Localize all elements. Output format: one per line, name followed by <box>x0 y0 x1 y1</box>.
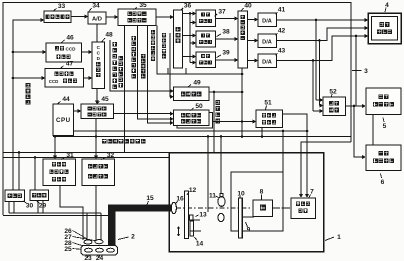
svg-text:32: 32 <box>107 152 115 159</box>
wire to relay 29 <box>34 156 37 159</box>
box 41: D/A converter <box>258 13 277 27</box>
wire 50 output to 51 <box>213 121 253 123</box>
bracket 9 <box>242 216 254 218</box>
svg-text:6: 6 <box>381 179 385 186</box>
svg-text:33: 33 <box>58 3 66 10</box>
wires 36 outputs to sync memories 37/38/39 <box>183 13 194 15</box>
box 39: sync memory B <box>196 52 216 68</box>
wire A/D down to CCD selector 48 <box>96 24 98 42</box>
svg-text:51: 51 <box>264 100 272 107</box>
wire 52 to digital editor 5 <box>346 105 363 107</box>
bus label text <box>102 139 107 144</box>
box 36: multiplexer (vertical) <box>174 10 183 68</box>
wire lamp supply <box>220 135 223 138</box>
wire 40 bottom down to light source control 51 <box>241 68 243 137</box>
taps from video lines down to encoder 52 <box>315 19 318 22</box>
wire box5 to box6 <box>372 115 374 146</box>
box 32: observation mode changeover switch <box>82 159 115 186</box>
svg-text:7: 7 <box>310 188 314 195</box>
svg-text:40: 40 <box>244 2 252 9</box>
wire: branch to ordinary CCD driver 46 <box>12 51 15 54</box>
CCD plate 10 <box>239 198 243 238</box>
vertical signal label: balance detect signal <box>151 30 155 34</box>
box 50: electronic shutter control circuit (double border) <box>177 113 213 129</box>
wire into dimmer 49 <box>170 33 171 97</box>
svg-text:37: 37 <box>218 8 226 15</box>
box 42: D/A converter <box>258 34 277 48</box>
lamp lower <box>218 213 224 221</box>
svg-text:34: 34 <box>92 3 100 10</box>
wire for shutter signal <box>110 40 170 91</box>
inner optical unit enclosure <box>231 172 283 231</box>
tap from monitor line down to editor feed <box>355 35 358 38</box>
vertical signal label: electronic shutter control signal <box>112 42 117 47</box>
box 35: color balance correction circuit <box>118 9 156 26</box>
wire dimming signal down into camera <box>213 91 216 94</box>
svg-text:16: 16 <box>176 196 184 203</box>
wires 37/38/39 to 40 <box>216 18 236 20</box>
wire 34 to 35 <box>106 16 115 18</box>
lens 16 <box>171 202 176 213</box>
box 5: digital editing device <box>366 88 401 115</box>
svg-text:15: 15 <box>146 195 154 202</box>
light guide tube vertical to connector <box>108 205 116 247</box>
lamp 11 <box>220 194 223 198</box>
svg-text:CCD: CCD <box>66 46 77 51</box>
wire D/A41 to monitor <box>277 19 366 21</box>
wire second mode signal <box>148 26 171 123</box>
axis dash between 8 and 7 <box>273 207 292 209</box>
wire feed from memories/multiplexer bottoms <box>157 26 242 75</box>
svg-text:3: 3 <box>364 68 368 75</box>
svg-text:31: 31 <box>66 152 74 159</box>
wire CPU to 45 <box>74 110 79 112</box>
svg-text:D/A: D/A <box>262 59 272 65</box>
svg-text:D/A: D/A <box>262 18 272 24</box>
wire 51 bottom to bus <box>261 128 263 137</box>
wire CPU to info memory 31 <box>54 136 56 157</box>
svg-text:8: 8 <box>260 188 264 195</box>
box 49: dimming circuit <box>174 87 210 101</box>
svg-text:14: 14 <box>196 241 204 248</box>
wire 51 right output down to lamp drive 7 <box>283 114 308 195</box>
wire run to connector <box>9 212 101 214</box>
wire bus down to motor unit <box>207 137 209 213</box>
svg-text:41: 41 <box>278 6 286 13</box>
light guide tube 15 horizontal <box>108 205 171 212</box>
vertical signal label: discrimination signal <box>141 54 145 58</box>
svg-text:44: 44 <box>62 96 70 103</box>
box 43: D/A converter <box>258 54 277 68</box>
motor 14 <box>190 221 194 236</box>
wire mode signal into shutter circuit <box>138 26 171 119</box>
wire dimmer 49 output <box>209 91 242 93</box>
vertical signal label: observation mode discrimination signal <box>131 36 136 41</box>
box 38: sync memory G <box>196 31 216 47</box>
svg-text:9: 9 <box>247 227 251 234</box>
vertical signal label: luminance signal <box>162 33 166 37</box>
left vertical label: drive signal <box>26 83 31 88</box>
box 33: preprocessing circuit <box>44 11 71 23</box>
svg-text:1: 1 <box>337 234 341 241</box>
box 40: image processing circuit (vertical) <box>238 11 248 68</box>
svg-text:45: 45 <box>101 96 109 103</box>
wire 32 to connector <box>95 186 97 241</box>
svg-text:39: 39 <box>222 49 230 56</box>
box 51: light source control circuit <box>256 110 283 128</box>
svg-text:43: 43 <box>278 47 286 54</box>
svg-text:CPU: CPU <box>56 117 71 124</box>
svg-text:10: 10 <box>237 190 245 197</box>
wire branch down to recorder 6 <box>354 106 362 157</box>
up-down arrow <box>178 227 180 236</box>
svg-text:42: 42 <box>278 27 286 34</box>
box 48: CCD selector (vertical) <box>92 42 105 89</box>
vertical label: dimming signal <box>215 100 220 105</box>
wire 45 to 50 <box>114 113 171 115</box>
box 46: ordinary CCD driver <box>46 43 82 62</box>
wire 48 down to mode control 45 <box>96 89 98 102</box>
svg-text:46: 46 <box>66 34 74 41</box>
svg-text:CCD: CCD <box>49 79 59 84</box>
wire D/A43 to monitor <box>277 36 366 61</box>
svg-text:50: 50 <box>195 103 203 110</box>
bracket 13 <box>190 215 194 220</box>
wire inner unit feed <box>282 130 285 133</box>
moving plate 12 <box>185 191 189 239</box>
svg-text:5: 5 <box>383 123 387 130</box>
svg-text:30: 30 <box>26 203 34 210</box>
svg-text:25: 25 <box>64 246 72 253</box>
wire: branch to high-res CCD driver 47 <box>12 77 15 80</box>
optical axis <box>176 207 290 209</box>
node: cable 3 branch to lamp drive <box>301 142 351 196</box>
relay 30 output wiring <box>8 202 10 214</box>
svg-text:48: 48 <box>105 31 113 38</box>
box 52: encoding circuit <box>323 97 346 116</box>
wire 35 to 36 <box>156 16 171 18</box>
box 45: observation mode control circuit <box>81 104 114 119</box>
connector contacts upper <box>84 240 92 244</box>
wire D/A42 to monitor <box>277 28 366 41</box>
box 29: relay <box>30 190 49 201</box>
CPU long control line <box>74 130 308 132</box>
svg-text:49: 49 <box>193 79 201 86</box>
svg-text:47: 47 <box>66 60 74 67</box>
box 4: video monitor <box>368 13 401 44</box>
box 37: sync memory R <box>196 10 216 27</box>
svg-text:2: 2 <box>131 234 135 241</box>
wire 45/bus down to mode switch 32 <box>95 119 97 157</box>
left horizontal wire pair <box>3 152 169 154</box>
svg-text:52: 52 <box>329 88 337 95</box>
svg-text:A/D: A/D <box>92 17 102 23</box>
box 44: CPU <box>53 104 74 136</box>
wire 33 to 34 <box>71 16 85 18</box>
wires 46/47 to CCD selector 48 <box>82 51 90 53</box>
svg-text:35: 35 <box>139 2 147 9</box>
svg-text:36: 36 <box>184 2 192 9</box>
wire from 35 into camera <box>124 26 126 153</box>
svg-text:12: 12 <box>189 187 197 194</box>
box 6: image recording device <box>366 145 401 171</box>
vertical signal label: iris drive signal <box>118 56 123 61</box>
connector block <box>81 246 118 256</box>
box 8: lamp <box>253 200 273 217</box>
box 7: lamp drive circuit <box>291 198 316 219</box>
wire: video signal up the left side into preprocessor <box>13 20 41 190</box>
svg-text:11: 11 <box>209 193 216 200</box>
box 34: A/D converter <box>88 12 106 24</box>
box 30: relay <box>5 190 25 202</box>
outer enclosure: video processor unit frame <box>3 3 351 216</box>
wire: vertical tap feeding second inputs <box>189 12 192 15</box>
box 31: examination info storage unit <box>43 159 76 186</box>
wire to relay 30 from pair <box>18 151 21 154</box>
svg-text:38: 38 <box>222 28 230 35</box>
box 1: camera head enclosure <box>169 153 324 252</box>
svg-text:13: 13 <box>199 211 207 218</box>
wires 40 to D/A 41/42/43 <box>248 19 256 21</box>
svg-text:D/A: D/A <box>262 39 272 45</box>
bus: examination information management bus <box>53 136 351 138</box>
relay 29 output wiring <box>37 201 39 214</box>
wire 31 to connector <box>60 186 83 241</box>
box 47: high resolution CCD driver <box>45 69 84 88</box>
